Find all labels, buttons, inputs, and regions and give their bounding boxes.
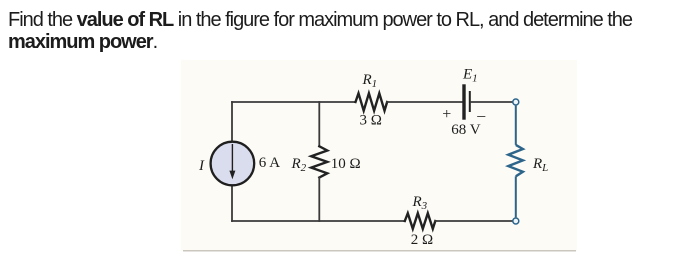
node bottom-right (513, 218, 519, 224)
wire R2 branch bottom (318, 178, 320, 222)
resistor R1 (356, 93, 388, 110)
battery E1 short plate (469, 92, 471, 111)
current source I circle (211, 142, 255, 186)
wire left vertical (top) (231, 102, 233, 141)
svg-text:2 Ω: 2 Ω (411, 232, 433, 248)
resistor R3 (405, 213, 436, 229)
wire RL to bottom node (515, 176, 517, 217)
resistor R2 (311, 146, 327, 177)
svg-text:3 Ω: 3 Ω (360, 113, 382, 129)
svg-text:68 V: 68 V (451, 122, 480, 138)
svg-text:+: + (442, 106, 451, 123)
wire top node to RL (515, 106, 517, 145)
node top-right (513, 99, 519, 105)
wire battery to right node (471, 101, 512, 103)
wire bottom-left horizontal (232, 220, 405, 222)
svg-text:10 Ω: 10 Ω (331, 156, 361, 172)
RL branch (teal) (508, 106, 523, 218)
wire left vertical (bottom) (231, 186, 233, 221)
circuit image bottom shadow line (183, 250, 576, 252)
svg-text:I: I (198, 158, 205, 174)
battery E1 long plate (462, 86, 465, 118)
svg-text:6 A: 6 A (259, 155, 280, 171)
wire top-left horizontal (232, 101, 356, 103)
wire R3 to bottom-right node (435, 220, 512, 222)
wire R1 to battery (387, 101, 462, 103)
resistor RL (508, 145, 523, 176)
circuit image background (181, 60, 577, 251)
wire R2 branch top (318, 102, 320, 146)
current source arrow (231, 144, 233, 172)
